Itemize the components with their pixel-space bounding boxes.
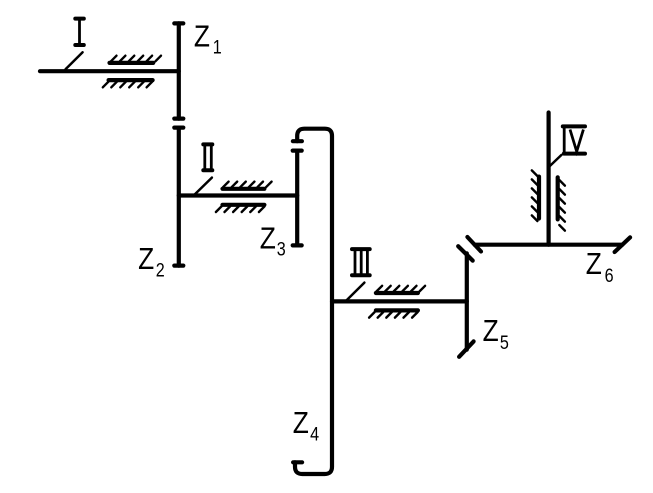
svg-text:3: 3: [277, 238, 286, 260]
svg-text:2: 2: [156, 259, 165, 281]
svg-text:Z: Z: [138, 242, 154, 276]
svg-text:Z: Z: [194, 20, 210, 54]
svg-text:4: 4: [310, 423, 319, 445]
svg-text:5: 5: [500, 332, 509, 354]
svg-text:Z: Z: [586, 247, 602, 281]
svg-text:Z: Z: [483, 314, 499, 348]
svg-text:1: 1: [213, 36, 222, 58]
svg-text:Z: Z: [293, 406, 309, 440]
svg-text:6: 6: [605, 265, 614, 287]
svg-text:Z: Z: [260, 221, 276, 255]
